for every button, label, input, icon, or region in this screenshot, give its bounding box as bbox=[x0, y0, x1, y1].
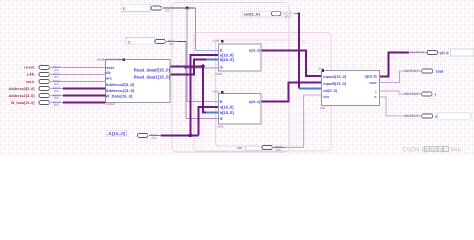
svg-text:inst0: inst0 bbox=[215, 72, 222, 76]
block U2 choice upper bbox=[213, 38, 261, 76]
svg-text:VCC: VCC bbox=[151, 136, 157, 140]
input port E bbox=[121, 4, 171, 12]
input port W_Data bbox=[11, 100, 106, 107]
svg-text:666: 666 bbox=[451, 147, 462, 154]
svg-text:W_Data[15..0]: W_Data[15..0] bbox=[11, 101, 35, 105]
input port Address1 bbox=[9, 93, 106, 100]
svg-text:E: E bbox=[220, 99, 223, 104]
frame outermost rounded boundary bbox=[172, 3, 289, 153]
frame inner rounded boundary bbox=[215, 40, 304, 146]
svg-text:OUTPUT: OUTPUT bbox=[404, 69, 419, 73]
svg-text:q[15..0]: q[15..0] bbox=[440, 51, 449, 55]
input port clk bbox=[27, 72, 106, 79]
input port S bbox=[126, 38, 178, 46]
svg-text:b[15..0]: b[15..0] bbox=[220, 57, 234, 62]
output port cout bbox=[404, 69, 444, 73]
pin z of U2 bbox=[249, 49, 260, 53]
wire E to lower choice E bbox=[187, 8, 218, 101]
svg-text:A[15..0]: A[15..0] bbox=[108, 131, 126, 136]
wire feedback q bus horizontal bbox=[161, 134, 199, 136]
wire sel bus bbox=[294, 14, 300, 89]
pin j of U4 bbox=[375, 90, 377, 94]
svg-text:wrc: wrc bbox=[25, 80, 35, 84]
svg-text:CSDN @: CSDN @ bbox=[403, 147, 428, 154]
svg-text:S: S bbox=[220, 64, 223, 69]
wire sel into alu bbox=[299, 87, 322, 89]
input port q feedback bbox=[107, 130, 161, 140]
pin Address0 of U1 bbox=[105, 83, 135, 87]
svg-text:W_Data[15..0]: W_Data[15..0] bbox=[105, 94, 133, 98]
pin E of U2 bbox=[220, 48, 223, 53]
node Read_data0 junction bbox=[201, 65, 205, 69]
input port cin bbox=[237, 145, 284, 152]
pin z of U3 bbox=[249, 100, 260, 104]
svg-text:cin: cin bbox=[237, 146, 242, 150]
svg-text:VCC: VCC bbox=[54, 103, 60, 107]
node feedback junction bbox=[189, 134, 193, 138]
svg-text:reset: reset bbox=[24, 66, 35, 70]
wire S to upper choice S bbox=[186, 67, 219, 69]
pin b of U3 bbox=[220, 110, 234, 115]
block U3 choice lower bbox=[213, 89, 261, 128]
input port reset bbox=[24, 65, 105, 72]
svg-text:sel[3..0]: sel[3..0] bbox=[323, 89, 337, 93]
wire E net horizontal from pin bbox=[171, 7, 196, 9]
frame outer rounded boundary bbox=[194, 32, 331, 151]
svg-text:VCC: VCC bbox=[285, 14, 291, 18]
svg-text:inputA[15..0]: inputA[15..0] bbox=[323, 75, 346, 79]
svg-text:inputB[15..0]: inputB[15..0] bbox=[323, 82, 346, 86]
svg-text:S: S bbox=[220, 116, 223, 121]
wire lower choice z to alu inputB bbox=[261, 83, 322, 102]
wire feedback to lower choice a bbox=[199, 107, 219, 135]
svg-text:a[15..0]: a[15..0] bbox=[220, 104, 234, 109]
node S junction bbox=[185, 67, 187, 69]
wire Read_data0 to lower choice b bbox=[203, 66, 218, 112]
svg-text:Address0[3..0]: Address0[3..0] bbox=[105, 83, 135, 87]
svg-text:z[15..0]: z[15..0] bbox=[249, 100, 260, 104]
svg-text:cout: cout bbox=[436, 69, 444, 73]
pin Read_data1 of U1 bbox=[134, 75, 171, 80]
pin o of U4 bbox=[374, 95, 376, 99]
svg-text:clk: clk bbox=[27, 73, 35, 77]
pin cin of U4 bbox=[323, 95, 329, 99]
output port j bbox=[405, 92, 436, 96]
pin W_Data of U1 bbox=[105, 94, 133, 98]
svg-text:VCC: VCC bbox=[276, 148, 282, 152]
block U4 alu bbox=[319, 67, 380, 110]
wire E to upper choice E bbox=[196, 8, 219, 50]
svg-text:sel[3..0]: sel[3..0] bbox=[244, 13, 260, 17]
svg-text:cin: cin bbox=[323, 95, 329, 99]
svg-text:j: j bbox=[375, 90, 377, 94]
wire cin to alu bbox=[285, 95, 322, 148]
svg-text:choice: choice bbox=[213, 89, 220, 93]
input port wre bbox=[25, 79, 106, 86]
pin inputB of U4 bbox=[323, 82, 346, 86]
input port Address0 bbox=[9, 86, 106, 93]
svg-text:doublechannelram: doublechannelram bbox=[97, 57, 123, 61]
svg-text:Address0[3..0]: Address0[3..0] bbox=[9, 87, 35, 91]
pin b of U2 bbox=[220, 57, 234, 62]
pin clk of U1 bbox=[105, 71, 111, 75]
svg-text:b[15..0]: b[15..0] bbox=[220, 110, 234, 115]
svg-text:inst1: inst1 bbox=[217, 124, 224, 128]
pin wrc of U1 bbox=[104, 77, 112, 81]
watermark CSDN bbox=[403, 146, 462, 153]
svg-text:o: o bbox=[374, 95, 376, 99]
wire upper choice z to alu inputA bbox=[261, 50, 322, 76]
wire Read_data1 bus to upper choice b bbox=[170, 60, 218, 75]
svg-text:j: j bbox=[434, 92, 436, 96]
pin a of U2 bbox=[220, 52, 234, 57]
svg-text:inst2: inst2 bbox=[106, 102, 115, 106]
pin Read_data0 of U1 bbox=[134, 67, 171, 72]
svg-text:clk: clk bbox=[105, 71, 111, 75]
wire S net from pin bbox=[175, 40, 186, 42]
pin cout of U4 bbox=[369, 81, 377, 85]
pin q of U4 bbox=[365, 75, 377, 79]
wire alu j to output pin bbox=[380, 91, 405, 94]
wire alu q to output pin bbox=[380, 53, 410, 77]
svg-text:inst: inst bbox=[320, 106, 325, 110]
node E junction bbox=[186, 7, 189, 10]
svg-text:Read_data0[15..0]: Read_data0[15..0] bbox=[134, 67, 171, 72]
pin Address1 of U1 bbox=[105, 89, 135, 93]
output port o bbox=[405, 113, 472, 120]
svg-text:cout: cout bbox=[369, 81, 377, 85]
wire feedback to upper choice a bbox=[190, 55, 218, 135]
svg-text:Read_data1[15..0]: Read_data1[15..0] bbox=[134, 75, 171, 80]
wire alu o to output pin bbox=[380, 97, 405, 116]
pin a of U3 bbox=[220, 104, 234, 109]
svg-text:o: o bbox=[435, 114, 437, 118]
wire Read_data0 bus bbox=[170, 65, 203, 67]
input port sel bbox=[242, 11, 291, 18]
pin reset of U1 bbox=[105, 66, 114, 70]
svg-text:reset: reset bbox=[105, 66, 114, 70]
output port q bbox=[409, 49, 474, 56]
pin S of U3 bbox=[220, 116, 223, 121]
svg-text:OUTPUT: OUTPUT bbox=[405, 114, 420, 118]
svg-text:z[15..0]: z[15..0] bbox=[249, 49, 260, 53]
svg-text:VCC: VCC bbox=[169, 42, 175, 46]
svg-text:OUTPUT: OUTPUT bbox=[410, 51, 425, 55]
svg-text:VCC: VCC bbox=[165, 9, 171, 13]
wire alu cout to output pin bbox=[380, 71, 405, 82]
svg-text:OUTPUT: OUTPUT bbox=[405, 92, 420, 96]
svg-text:q[15..0]: q[15..0] bbox=[365, 75, 377, 79]
svg-text:Address1[3..0]: Address1[3..0] bbox=[105, 89, 135, 93]
block U1 doublechannelram bbox=[97, 57, 170, 106]
pin E of U3 bbox=[220, 99, 223, 104]
pin sel of U4 bbox=[323, 89, 337, 93]
pin inputA of U4 bbox=[323, 75, 346, 79]
svg-text:Address1[3..0]: Address1[3..0] bbox=[9, 94, 35, 98]
pin S of U2 bbox=[220, 64, 223, 69]
wire S net vertical bbox=[185, 41, 187, 118]
svg-text:choice: choice bbox=[213, 38, 220, 42]
svg-text:wrc: wrc bbox=[104, 77, 112, 81]
wire S to lower choice S bbox=[186, 118, 219, 120]
